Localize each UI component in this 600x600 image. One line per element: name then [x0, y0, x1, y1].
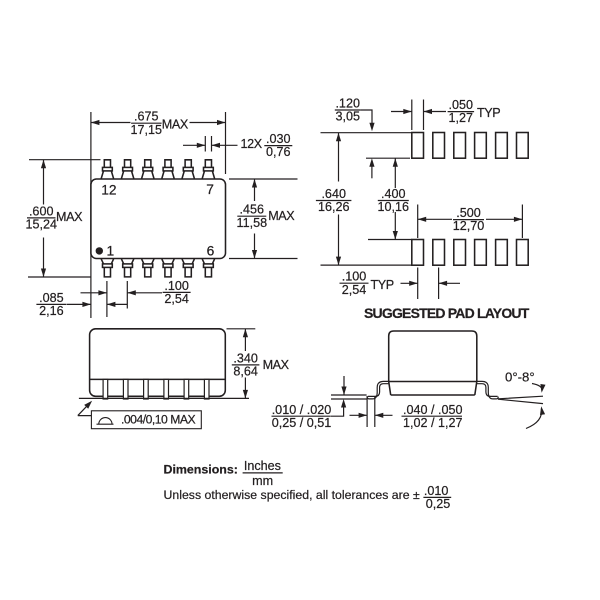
svg-text:0,25 / 0,51: 0,25 / 0,51 — [272, 416, 332, 430]
svg-text:.675: .675 — [134, 110, 159, 124]
pad 5 (bottom row) — [496, 240, 508, 266]
side view lead exit line — [90, 378, 226, 380]
flatness note box — [91, 411, 201, 429]
dimension .100/2,54 (pin pitch) arrows — [81, 292, 107, 294]
svg-text:mm: mm — [252, 474, 273, 488]
svg-text:17,15: 17,15 — [131, 123, 163, 137]
pin 1 lead (bottom row, top view) — [101, 259, 113, 277]
svg-text:2,54: 2,54 — [164, 292, 189, 306]
dimension .050/1,27 TYP (pad width) extension lines — [411, 100, 413, 131]
end view body bottom line — [391, 394, 475, 396]
dimension .675/17,15 MAX (package width) — [91, 122, 131, 124]
IC package top view: right extension line for .675 dimension — [225, 112, 227, 174]
dimension 12X .030/0,76 arrows — [183, 144, 205, 146]
side view lead 5 — [184, 379, 189, 399]
svg-text:.100: .100 — [342, 270, 367, 284]
svg-text:.120: .120 — [335, 96, 360, 110]
suggested pad layout: outer bottom line — [321, 264, 412, 266]
svg-text:6: 6 — [207, 244, 215, 259]
svg-text:Unless otherwise specified, al: Unless otherwise specified, all toleranc… — [164, 488, 420, 502]
svg-text:1: 1 — [107, 244, 115, 259]
pin 11 lead (top row, top view) — [121, 160, 133, 179]
end view right gull-wing lead — [477, 381, 498, 399]
IC package top view: left extension line (body left edge / datum) — [90, 112, 92, 318]
svg-text:0,25: 0,25 — [426, 497, 451, 511]
pin 8 lead (top row, top view) — [182, 160, 194, 179]
svg-text:0°-8°: 0°-8° — [505, 370, 535, 385]
pad 2 (bottom row) — [433, 240, 445, 266]
extension line: pin 1 center below body — [106, 281, 108, 317]
lead foot angle wedge lines (0-8 degrees) — [498, 396, 543, 403]
end view body outline — [389, 331, 477, 382]
side view lead 3 — [144, 379, 149, 399]
pin 5 lead (bottom row, top view) — [182, 259, 194, 277]
dimension .040/.050 arrows — [350, 414, 368, 416]
svg-text:10,16: 10,16 — [378, 200, 410, 214]
svg-text:.004/0,10 MAX: .004/0,10 MAX — [121, 413, 195, 427]
pin 3 lead (bottom row, top view) — [142, 259, 154, 277]
svg-text:.600: .600 — [29, 204, 54, 218]
svg-text:MAX: MAX — [56, 210, 83, 224]
pin 9 lead (top row, top view) — [162, 160, 174, 179]
svg-text:.640: .640 — [321, 187, 346, 201]
svg-text:12,70: 12,70 — [453, 219, 485, 233]
seating plane line (side view) — [79, 397, 249, 399]
dimension 12X .030/0,76 (lead tip width) extension lines — [204, 136, 206, 152]
svg-text:2,16: 2,16 — [39, 304, 64, 318]
pin 2 lead (bottom row, top view) — [121, 259, 133, 277]
extension line: pin 2 center below body — [126, 281, 128, 309]
pin 12 lead (top row, top view) — [101, 160, 113, 179]
dimension .456/11,58 MAX (body height) extension lines — [229, 178, 298, 180]
dimension .340/8,64 MAX extension line (top) — [227, 328, 256, 330]
dimension .010/.020 arrows — [343, 376, 345, 395]
svg-text:8,64: 8,64 — [233, 365, 258, 379]
dimension .100/2,54 TYP (pad pitch) extension lines — [417, 268, 419, 300]
svg-text:Inches: Inches — [244, 459, 281, 473]
svg-text:MAX: MAX — [263, 358, 290, 372]
side view lead 2 — [123, 379, 128, 399]
dimension .400/10,16 (inner pad gap) — [394, 158, 396, 188]
svg-text:1,02 / 1,27: 1,02 / 1,27 — [403, 416, 463, 430]
suggested pad layout: outer top line — [321, 132, 412, 134]
svg-text:.030: .030 — [266, 132, 291, 146]
pad 11 (top row) — [433, 133, 445, 159]
dimension .600/15,24 MAX arrows — [43, 160, 45, 205]
dimension .040/.050 (foot length) extension lines — [366, 396, 368, 427]
dimension .500/12,70 arrows — [418, 218, 452, 220]
side view body outline — [90, 329, 226, 397]
svg-text:MAX: MAX — [162, 117, 189, 131]
svg-text:.400: .400 — [381, 187, 406, 201]
extension line at inner edge of top pad row — [366, 157, 410, 159]
pad 12 (top row) — [412, 133, 424, 159]
pad 3 (bottom row) — [454, 240, 466, 266]
pad 4 (bottom row) — [475, 240, 487, 266]
svg-text:3,05: 3,05 — [335, 110, 360, 124]
svg-text:2,54: 2,54 — [342, 283, 367, 297]
svg-text:15,24: 15,24 — [25, 218, 57, 232]
svg-text:MAX: MAX — [268, 209, 295, 223]
svg-text:TYP: TYP — [477, 106, 500, 120]
svg-text:.456: .456 — [240, 203, 265, 217]
pad 10 (top row) — [454, 133, 466, 159]
seating plane line (end view, extended left) — [331, 398, 367, 400]
pad 1 (bottom row) — [412, 240, 424, 266]
svg-text:TYP: TYP — [371, 278, 394, 292]
side view lead 6 — [204, 379, 209, 399]
dimension .340/8,64 MAX arrows — [244, 329, 246, 351]
pad 6 (bottom row) — [517, 240, 529, 266]
svg-text:1,27: 1,27 — [449, 111, 474, 125]
svg-text:.500: .500 — [456, 206, 481, 220]
pad 9 (top row) — [475, 133, 487, 159]
svg-text:12: 12 — [101, 183, 116, 198]
dimension .120 lower arrow (points up at inner pad edge) — [371, 162, 373, 178]
end view lower body sides — [389, 382, 477, 396]
extension line at inner edge of bottom pad row — [368, 239, 412, 241]
pad 7 (top row) — [517, 133, 529, 159]
pin 6 lead (bottom row, top view) — [202, 259, 214, 277]
pin 1 index dot — [96, 247, 103, 254]
pin 7 lead (top row, top view) — [202, 160, 214, 179]
svg-text:.010: .010 — [424, 484, 449, 498]
angle leader arcs — [532, 384, 542, 391]
dimension .085 arrows — [67, 303, 91, 305]
svg-text:.100: .100 — [164, 279, 189, 293]
end view left gull-wing lead — [367, 381, 388, 399]
svg-text:.050: .050 — [449, 98, 474, 112]
flatness (seating plane) symbol — [97, 418, 114, 425]
dimension .456/11,58 MAX arrows — [254, 179, 256, 201]
svg-text:11,58: 11,58 — [237, 216, 268, 230]
svg-text:12X: 12X — [241, 137, 263, 151]
svg-text:.340: .340 — [233, 351, 258, 365]
IC package top view body outline — [91, 179, 226, 259]
svg-text:Dimensions:: Dimensions: — [164, 462, 238, 476]
pin 4 lead (bottom row, top view) — [162, 259, 174, 277]
end view lead exit (waist) line — [389, 381, 477, 383]
svg-text:SUGGESTED PAD LAYOUT: SUGGESTED PAD LAYOUT — [364, 305, 530, 321]
svg-text:7: 7 — [206, 182, 214, 197]
dimension .600/15,24 MAX (overall height) extension lines — [29, 159, 101, 161]
stand-off upper line (body bottom plane, extended left) — [331, 394, 367, 396]
svg-text:0,76: 0,76 — [266, 145, 291, 159]
pad 8 (top row) — [496, 133, 508, 159]
side view lead 1 — [103, 379, 108, 399]
seating plane datum flag — [78, 404, 92, 416]
dimension .500/12,70 (pad row span) extension lines — [417, 205, 419, 239]
dimension .640/16,26 (outer pad extent) — [338, 133, 340, 182]
svg-text:.085: .085 — [39, 291, 64, 305]
dimension .050/1,27 TYP arrows — [391, 111, 412, 113]
dimension .100 TYP arrows — [401, 282, 418, 284]
svg-text:16,26: 16,26 — [318, 200, 350, 214]
pin 10 lead (top row, top view) — [142, 160, 154, 179]
side view lead 4 — [164, 379, 169, 399]
